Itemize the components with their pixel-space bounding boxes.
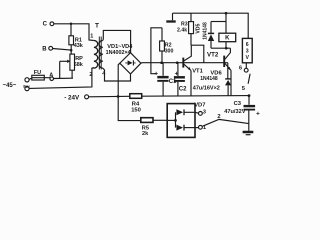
potentiometer RP — [70, 54, 84, 70]
svg-text:6: 6 — [246, 42, 249, 48]
AC input terminals — [3, 78, 30, 91]
capacitor C3 — [224, 96, 260, 131]
terminal 1 — [199, 125, 207, 131]
svg-text:B: B — [42, 47, 47, 53]
svg-text:2: 2 — [217, 114, 220, 120]
svg-text:47u/32V: 47u/32V — [224, 109, 245, 115]
svg-text:5: 5 — [242, 86, 246, 92]
wire AC bottom to transformer primary bottom — [29, 68, 94, 89]
svg-text:2k: 2k — [142, 131, 149, 137]
relay coil K — [211, 13, 236, 48]
transistor VT2 — [207, 48, 231, 95]
svg-text:C: C — [43, 22, 48, 28]
wire bridge minus down to rail and R5 branch — [118, 63, 141, 120]
svg-text:150: 150 — [131, 108, 141, 114]
-24V rail right — [142, 95, 249, 98]
node K bottom / VT2 collector — [225, 47, 228, 50]
svg-text:300: 300 — [165, 49, 174, 55]
svg-text:C3: C3 — [234, 101, 242, 107]
svg-text:1N4148: 1N4148 — [202, 22, 208, 40]
svg-text:3: 3 — [246, 48, 249, 54]
svg-text:3: 3 — [203, 109, 206, 115]
lamp EL 6.3V — [242, 38, 252, 68]
diode VD7a — [176, 109, 198, 115]
svg-text:1N4002×4: 1N4002×4 — [106, 50, 131, 56]
relay contact arm bottom to node 2 — [203, 114, 249, 126]
svg-text:2.4k: 2.4k — [177, 28, 187, 34]
resistor R3 — [177, 13, 194, 45]
node 5 — [242, 86, 251, 97]
rail stub bar — [166, 13, 175, 21]
zener VD6 — [193, 63, 231, 96]
ground — [243, 132, 254, 135]
RP bottom lead — [71, 70, 73, 78]
svg-text:C2: C2 — [179, 86, 187, 92]
wire VD5 bottom — [211, 47, 230, 49]
transistor VT1 — [183, 45, 204, 96]
svg-text:+: + — [175, 70, 179, 77]
svg-text:6: 6 — [239, 66, 242, 72]
svg-text:T: T — [95, 22, 99, 29]
svg-text:FU: FU — [34, 70, 41, 76]
wire A to RP bottom — [54, 77, 74, 79]
terminal 6 — [239, 66, 248, 73]
node top rail K branch — [225, 12, 228, 15]
node C1 top — [160, 61, 163, 64]
node C2 top — [176, 61, 179, 64]
wire R2 bypass — [151, 28, 162, 74]
fuse FU — [29, 70, 50, 80]
svg-text:68k: 68k — [74, 62, 84, 68]
zener VD5 — [195, 22, 214, 49]
top rail — [173, 13, 249, 38]
transformer T — [89, 22, 106, 78]
terminal -24V — [64, 94, 88, 101]
wire -24V rail left — [89, 95, 130, 98]
terminal B — [42, 46, 52, 52]
svg-text:1N4148: 1N4148 — [200, 76, 218, 82]
bridge rectifier VD1-VD4 — [106, 44, 141, 74]
svg-text:V: V — [245, 55, 249, 61]
wire bridge plus to VT1 base and VD6 — [141, 62, 228, 65]
svg-text:+: + — [256, 111, 260, 118]
terminal A — [49, 73, 53, 81]
svg-text:47u/16V×2: 47u/16V×2 — [193, 85, 220, 91]
svg-text:VD7: VD7 — [194, 102, 205, 108]
svg-text:VT2: VT2 — [207, 51, 219, 58]
svg-text:VT1: VT1 — [192, 69, 203, 75]
svg-text:~45~: ~45~ — [3, 83, 17, 89]
wire primary bottom — [92, 67, 94, 69]
wire B to R1/RP node — [53, 49, 71, 51]
VD7 inner wiring — [167, 112, 177, 127]
wire secondary bottom to bridge bottom — [103, 68, 131, 81]
svg-text:+: + — [154, 71, 158, 78]
resistor R4 — [130, 94, 142, 114]
capacitor C2 — [174, 63, 187, 96]
RP wiper arrow — [60, 60, 71, 79]
diode block VD7 — [167, 102, 205, 137]
svg-text:5w: 5w — [23, 84, 30, 90]
resistor R1 — [69, 24, 84, 54]
node rail/bridge-minus — [117, 95, 120, 98]
svg-text:K: K — [225, 36, 230, 42]
terminal C — [43, 22, 54, 28]
diode VD7b — [176, 125, 198, 131]
terminal 3 — [199, 109, 206, 115]
svg-text:VD5: VD5 — [195, 23, 201, 33]
node R1 top — [70, 23, 73, 26]
resistor R2 — [160, 28, 174, 63]
relay contact arm top — [248, 74, 250, 84]
svg-text:R2: R2 — [165, 42, 172, 48]
svg-text:43k: 43k — [74, 43, 84, 49]
resistor R5 — [141, 118, 167, 137]
svg-text:A: A — [49, 73, 53, 79]
wire secondary top to bridge top — [103, 30, 131, 52]
node B/R1/RP — [70, 49, 73, 52]
wire C to transformer primary top — [54, 24, 94, 41]
svg-text:- 24V: - 24V — [64, 94, 80, 101]
capacitor C1 — [154, 63, 177, 96]
svg-text:2: 2 — [89, 72, 92, 78]
svg-text:1: 1 — [90, 33, 93, 39]
